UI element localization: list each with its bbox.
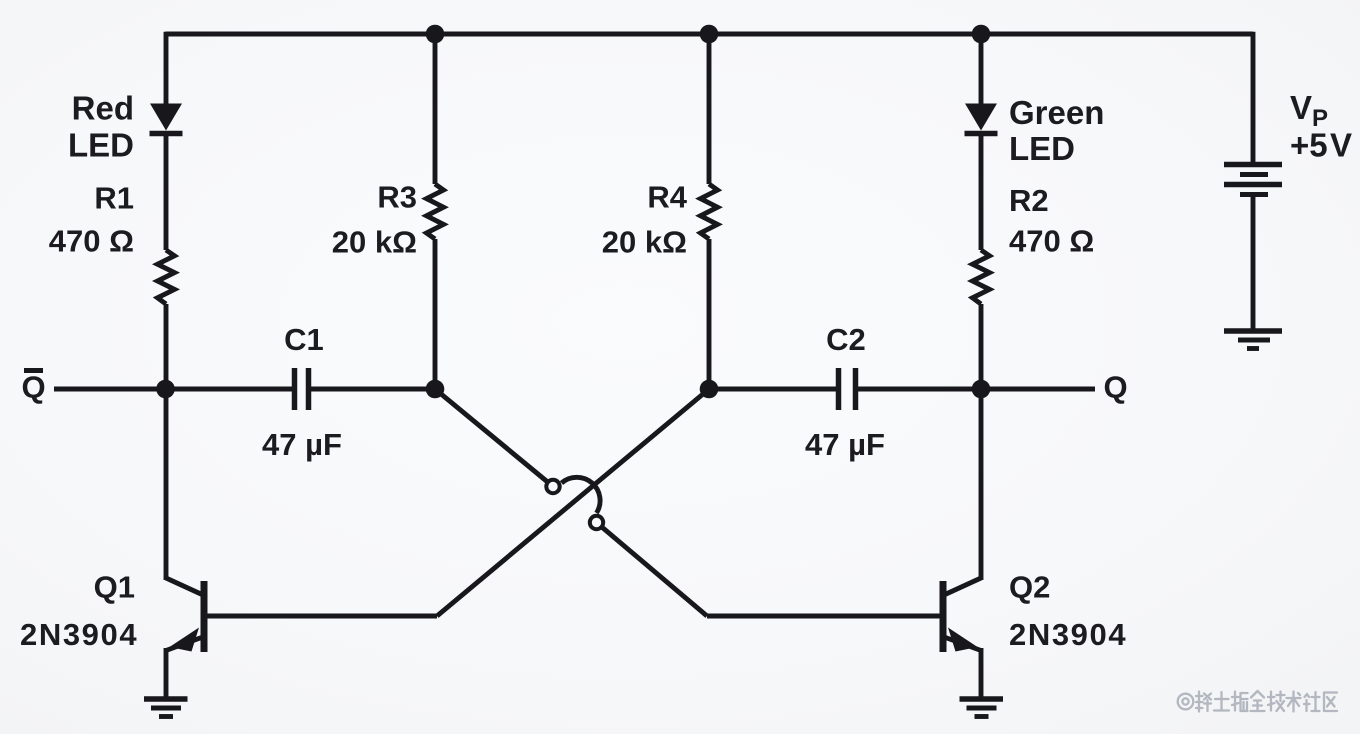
svg-text:V: V	[1330, 127, 1352, 164]
svg-text:Q: Q	[21, 370, 45, 405]
svg-text:R2: R2	[1009, 183, 1049, 218]
svg-text:V: V	[1290, 89, 1312, 126]
svg-text:Q: Q	[1104, 370, 1128, 405]
svg-text:+5: +5	[1290, 127, 1328, 164]
svg-text:47 µF: 47 µF	[805, 427, 885, 462]
svg-text:47 µF: 47 µF	[262, 427, 342, 462]
svg-text:20 kΩ: 20 kΩ	[602, 225, 687, 260]
svg-text:Green: Green	[1009, 94, 1104, 131]
svg-text:R3: R3	[377, 180, 417, 215]
svg-text:C1: C1	[284, 322, 324, 357]
svg-text:2N3904: 2N3904	[20, 617, 138, 652]
svg-text:470 Ω: 470 Ω	[1009, 224, 1094, 259]
svg-text:20 kΩ: 20 kΩ	[332, 225, 417, 260]
svg-text:R4: R4	[647, 180, 687, 215]
svg-text:C2: C2	[826, 322, 866, 357]
svg-text:Q1: Q1	[94, 570, 135, 605]
svg-text:2N3904: 2N3904	[1009, 617, 1127, 652]
svg-text:R1: R1	[94, 181, 134, 216]
svg-text:470 Ω: 470 Ω	[49, 224, 134, 259]
svg-text:LED: LED	[68, 127, 134, 164]
svg-text:LED: LED	[1009, 130, 1075, 167]
svg-text:Q2: Q2	[1009, 570, 1050, 605]
svg-text:Red: Red	[72, 90, 134, 127]
